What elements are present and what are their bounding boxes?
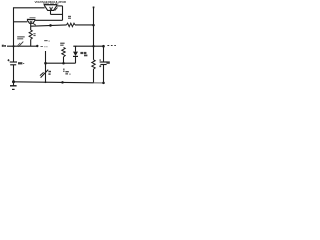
wire output dashes — [107, 45, 116, 47]
wire Q1 collector tick — [57, 5, 63, 7]
wire R4 bottom — [93, 69, 95, 83]
capacitor C2 label — [106, 61, 109, 63]
node bottom rail junction dot — [61, 81, 64, 84]
wire top rail — [14, 7, 45, 9]
wire bottom rail — [14, 81, 94, 84]
transistor Q1 label — [43, 3, 59, 4]
right rail vertical — [93, 7, 95, 60]
capacitor C1 — [10, 62, 17, 65]
transistor Q2 label — [30, 17, 36, 18]
wire output row B — [78, 45, 104, 47]
node input/rail junction — [12, 45, 14, 47]
node ground junction — [12, 80, 15, 83]
ground — [10, 82, 17, 89]
node output/rail cross — [92, 45, 94, 47]
wire Q2 lead down — [30, 23, 32, 30]
resistor R4 — [92, 60, 95, 69]
wire input row — [7, 45, 38, 47]
node output cap corner — [102, 45, 105, 48]
node pot top junction — [44, 62, 47, 65]
resistor R3 — [62, 48, 65, 57]
node R3 bottom junction — [62, 62, 65, 64]
resistor R4 label right — [99, 59, 101, 61]
node base junction dot — [49, 24, 52, 27]
wire base row to R2 — [31, 25, 67, 26]
wire x63 to Q2 collector — [35, 19, 62, 21]
wire Q2 emitter from left rail — [14, 21, 28, 23]
resistor R2 — [67, 23, 76, 27]
label dashes center — [41, 40, 50, 47]
wire R2 to right rail — [75, 24, 94, 26]
node cap C2 bottom junction — [102, 82, 105, 85]
wire R3 bottom — [63, 57, 65, 63]
node wire end dot — [36, 45, 38, 47]
wire Q1 base lead down — [50, 10, 52, 14]
resistor R3 label — [60, 43, 64, 46]
diode D1 — [73, 46, 78, 63]
wire A mid horizontal — [46, 62, 76, 64]
potentiometer label dots — [48, 71, 51, 75]
wire left rail lower — [13, 65, 15, 82]
wire Q1 base to x63 — [51, 13, 63, 15]
node right rail top tip — [93, 7, 95, 9]
capacitor C1 plus — [7, 59, 9, 61]
node right rail junction — [92, 24, 95, 27]
capacitor C2 plus — [99, 65, 101, 67]
diode D1 label — [80, 52, 86, 54]
text cluster lower center — [63, 69, 71, 75]
svg-text:VOLTAGE REGULATOR: VOLTAGE REGULATOR — [35, 0, 67, 4]
input terminal label — [2, 45, 6, 47]
wire vertical x63 — [62, 6, 64, 20]
wire left rail upper — [13, 7, 15, 61]
wire R1 to bottom — [30, 39, 32, 46]
potentiometer arrow slashes left — [18, 42, 23, 47]
node pot bottom junction — [45, 81, 47, 83]
resistor R1 — [29, 30, 32, 39]
resistor R2 label — [68, 16, 71, 19]
potentiometer wiper slashes — [41, 70, 49, 78]
resistor R1 label — [33, 33, 35, 36]
potentiometer body vertical — [45, 51, 47, 82]
resistor label rows upper-left — [17, 36, 25, 39]
capacitor C1 label — [18, 62, 24, 64]
resistor R4 label left — [84, 55, 87, 57]
transistor Q1 — [44, 5, 58, 11]
capacitor C2 — [100, 46, 108, 83]
transistor Q2 — [27, 19, 36, 25]
